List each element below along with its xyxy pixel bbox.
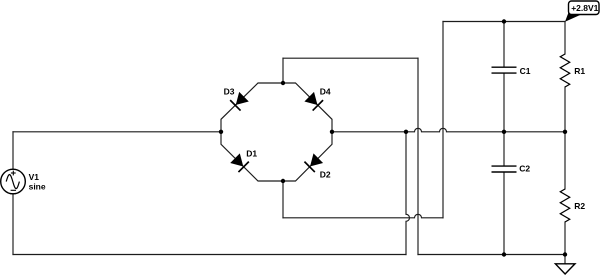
V1 minus sign xyxy=(11,189,16,191)
diode D4 xyxy=(305,93,323,111)
svg-text:D1: D1 xyxy=(246,148,257,158)
node dot mid rail C xyxy=(502,130,506,134)
node dot mid rail x=406 xyxy=(404,130,408,134)
wire C1 bottom lead xyxy=(503,74,505,132)
svg-text:C2: C2 xyxy=(519,163,530,173)
net flag +2.8V1 pointer xyxy=(565,11,582,22)
wire R2 top lead xyxy=(564,132,566,189)
wire C1 top lead xyxy=(503,22,505,67)
wire C2 top lead xyxy=(503,132,505,166)
wire y=217 rail with hop over x=418 xyxy=(283,214,443,217)
voltage source V1 circle xyxy=(1,169,26,194)
wire V1 top lead up to left rail xyxy=(12,132,14,169)
svg-text:C1: C1 xyxy=(520,66,531,76)
node dot mid rail R xyxy=(563,130,567,134)
svg-text:D2: D2 xyxy=(320,170,331,180)
diode D3 xyxy=(230,93,248,111)
node dot bridge left xyxy=(219,130,223,134)
node dot top rail C1 xyxy=(502,19,506,23)
node dot bottom rail C2 xyxy=(502,252,506,256)
svg-text:+2.8V1: +2.8V1 xyxy=(571,3,598,13)
wire ground stub xyxy=(564,255,566,264)
wire left rail V1 to bridge left node xyxy=(13,131,221,133)
wire bridge top stem up xyxy=(282,58,284,83)
resistor R1 zigzag xyxy=(560,54,569,87)
net flag +2.8V1 box xyxy=(569,1,600,15)
wire vertical x=418 down to bottom-right rail xyxy=(417,58,419,254)
wire bottom-left rail to vertical riser x=406 xyxy=(13,254,406,256)
wire bridge bottom stem down xyxy=(282,181,284,218)
wire V1 bottom lead down to bottom-left rail xyxy=(12,194,14,255)
svg-text:sine: sine xyxy=(29,181,46,191)
wire top inner rail y=58 xyxy=(283,57,418,59)
svg-text:R1: R1 xyxy=(574,66,585,76)
wire bottom-right rail to ground / R2 xyxy=(418,254,565,256)
svg-text:D4: D4 xyxy=(320,86,331,96)
V1 sine squiggle xyxy=(6,175,19,189)
wire C2 bottom lead xyxy=(503,172,505,254)
wire top rail y=21.3 xyxy=(443,21,565,23)
capacitor C1 plates xyxy=(492,67,517,73)
svg-text:R2: R2 xyxy=(574,201,585,211)
diode D2 xyxy=(304,154,322,172)
wire R1 top lead xyxy=(564,22,566,55)
svg-text:D3: D3 xyxy=(224,87,235,97)
resistor R2 zigzag xyxy=(560,189,569,222)
wire mid rail bridge right node to R column, hops over x=418 and x=443 xyxy=(332,128,565,131)
wire vertical riser x=406 with hop over y=217 wire xyxy=(406,132,410,255)
wire R2 bottom lead xyxy=(564,222,566,255)
diode D1 xyxy=(231,154,249,172)
ground symbol xyxy=(555,264,575,274)
wire vertical x=443 up to top rail xyxy=(442,22,444,218)
wire R1 bottom lead xyxy=(564,87,566,132)
node dot bottom rail ground xyxy=(563,252,567,256)
bridge octagon body xyxy=(221,83,332,181)
node dot bridge right xyxy=(330,130,334,134)
node dot bridge top xyxy=(281,81,285,85)
V1 plus sign xyxy=(11,171,16,176)
capacitor C2 plates xyxy=(492,166,517,172)
node dot bridge bottom xyxy=(281,179,285,183)
